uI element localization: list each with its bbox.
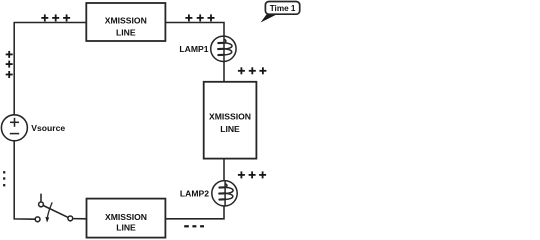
svg-text:LINE: LINE <box>116 28 136 38</box>
charge marks +++ right of LAMP2 <box>238 171 266 178</box>
svg-text:XMISSION: XMISSION <box>209 112 251 122</box>
svg-text:LINE: LINE <box>220 124 240 134</box>
switch S1 left contact <box>35 217 40 222</box>
svg-text:XMISSION: XMISSION <box>105 212 147 222</box>
charge marks +++ right of LAMP1 <box>238 67 267 74</box>
switch S1 pivot contact with stub <box>39 194 44 207</box>
svg-text:Vsource: Vsource <box>31 123 65 133</box>
callout "Time 1" <box>261 2 300 23</box>
label LAMP2 <box>180 188 209 198</box>
svg-text:Time 1: Time 1 <box>270 4 296 13</box>
source Vsource <box>1 115 27 141</box>
wire top-left horizontal <box>14 23 86 116</box>
charge marks +++ top right <box>185 14 214 21</box>
transmission line TL1 <box>86 3 165 41</box>
svg-text:XMISSION: XMISSION <box>105 16 147 26</box>
charge marks +++ left wire vertical <box>6 51 13 78</box>
wire LAMP1 to TL2 <box>223 61 225 82</box>
charge marks +++ top left <box>41 14 70 21</box>
transmission line TL2 <box>204 82 257 159</box>
lamp LAMP1 <box>211 36 236 61</box>
transmission line TL3 <box>87 199 166 238</box>
svg-text:LAMP2: LAMP2 <box>180 188 209 198</box>
wire TL3 to switch right contact <box>73 218 86 220</box>
wire LAMP2 down and left to TL3 <box>165 205 224 218</box>
wire TL2 to LAMP2 <box>223 159 225 182</box>
switch S1 motion arrow <box>45 202 52 222</box>
label LAMP1 <box>179 44 208 54</box>
label Vsource <box>31 123 65 133</box>
switch S1 right contact <box>68 216 73 221</box>
svg-text:LAMP1: LAMP1 <box>179 44 208 54</box>
lamp LAMP2 <box>212 181 237 206</box>
charge marks minus dots on left wire below source <box>3 172 5 185</box>
switch S1 blade <box>43 206 68 218</box>
wire top-right horizontal with bend down to LAMP1 <box>165 23 224 37</box>
svg-text:LINE: LINE <box>116 223 136 233</box>
charge marks - - - below bottom wire <box>184 225 204 227</box>
wire left vertical lower from Vsource to switch left contact <box>14 141 35 220</box>
